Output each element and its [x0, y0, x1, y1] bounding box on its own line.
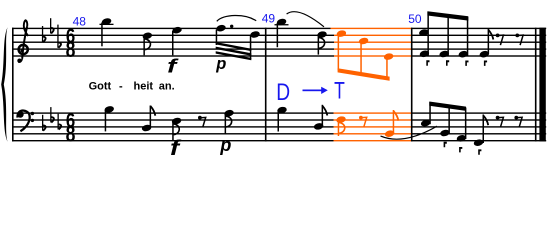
m50 bass beam	[429, 102, 466, 111]
final barline thin	[535, 28, 537, 142]
svg-text:heit: heit	[134, 80, 154, 92]
bass key signature flat B	[42, 115, 43, 131]
m50 bass eighth with flag	[473, 138, 484, 146]
m50 bass eighth rest 2	[514, 116, 522, 128]
m49 treble orange beam	[338, 68, 390, 81]
svg-text:48: 48	[73, 15, 87, 29]
bass slur m49 to m50	[381, 126, 438, 139]
svg-text:D: D	[276, 78, 290, 106]
treble staff line 2	[12, 35, 334, 36]
treble key signature flat E	[50, 18, 51, 33]
svg-text:T: T	[334, 78, 345, 104]
svg-text:-: -	[119, 80, 123, 92]
m48 treble beamed pair note A dotted	[216, 24, 227, 32]
svg-text:p: p	[215, 55, 226, 73]
m48 treble note 2 eighth flag down	[142, 32, 153, 40]
m48 bass eighth rest	[198, 116, 206, 128]
svg-text:Gott: Gott	[89, 80, 112, 92]
treble staff line 3	[12, 42, 334, 43]
systemic barline	[12, 28, 14, 142]
treble key signature flat B	[42, 26, 43, 42]
m50 bass beamed note 2	[439, 129, 450, 137]
treble staff line 1	[12, 28, 331, 29]
m48 slur over beamed pair	[217, 15, 256, 21]
m49 bass selected eighth up flag orange	[384, 110, 398, 138]
m48 bass note 3 eighth down flag	[171, 117, 182, 125]
m50 bass eighth rest 1	[496, 116, 504, 128]
bass staff line 2	[12, 119, 334, 120]
m48 bass note 2 eighth up flag	[141, 124, 152, 132]
m49 bass selected eighth rest orange	[359, 116, 367, 128]
treble staff line 5	[12, 55, 334, 56]
bass key signature flat E	[50, 107, 51, 122]
m48 bass note 1 quarter	[104, 105, 115, 113]
treble staff orange selected segment lines	[331, 28, 412, 57]
grand staff brace	[1, 27, 7, 142]
bass staff line 1	[12, 112, 334, 113]
bass key signature flat A	[58, 114, 59, 130]
m48 triple beams	[216, 42, 252, 51]
m49 treble note 1 quarter (ledger)	[275, 24, 289, 25]
svg-text:an.: an.	[159, 80, 175, 92]
treble clef	[18, 20, 28, 62]
m50 treble staccato marks	[426, 60, 487, 66]
m50 treble beamed chord 1	[418, 28, 429, 36]
m50 bass staccato marks	[444, 142, 482, 155]
final barline thick	[539, 28, 545, 142]
bass staff orange selected segment lines	[334, 112, 412, 141]
blue arrow	[303, 90, 323, 92]
m50 treble beamed note 3	[458, 50, 469, 58]
m49 treble selected eighth 1 orange	[336, 29, 347, 70]
treble staff line 4	[12, 48, 334, 49]
m50 bass beamed note 1	[420, 119, 431, 127]
svg-text:8: 8	[66, 123, 76, 147]
bass staff line 5	[12, 140, 334, 141]
m48 treble note 3 quarter	[172, 26, 183, 34]
m49 treble note 2 eighth flag down	[317, 30, 328, 38]
svg-text:8: 8	[66, 38, 76, 62]
m49 treble selected eighth 3 orange	[383, 52, 394, 78]
m50 treble eighth rest 1	[496, 34, 504, 46]
m49 slur to eighth	[287, 12, 324, 27]
m48 treble note 1 quarter (ledger)	[100, 24, 114, 25]
m48 bass note 4 eighth down flag	[224, 109, 235, 117]
svg-text:p: p	[219, 135, 231, 155]
m49 bass note 2 eighth up flag	[313, 122, 324, 130]
bass staff line 3	[12, 126, 334, 127]
m50 treble eighth with flag	[479, 50, 490, 58]
m50 treble beam	[427, 11, 468, 20]
m49 bass note 1 quarter	[277, 106, 288, 114]
m50 treble eighth rest 2	[515, 34, 523, 46]
barline m48/m49	[265, 28, 267, 142]
m48 augmentation dot	[230, 25, 233, 28]
svg-text:49: 49	[262, 12, 276, 26]
treble key signature flat A	[57, 25, 58, 48]
bass clef	[17, 111, 24, 118]
m49 bass selected eighth down flag orange	[336, 115, 347, 136]
bass staff line 4	[12, 133, 334, 134]
barline m49/m50	[411, 28, 413, 142]
m49 treble selected eighth 2 orange	[358, 37, 369, 74]
m50 treble beamed note 2	[439, 50, 450, 58]
m50 bass beamed note 3	[456, 134, 467, 142]
svg-text:50: 50	[408, 12, 422, 26]
m48 treble beamed pair note B	[250, 30, 261, 38]
